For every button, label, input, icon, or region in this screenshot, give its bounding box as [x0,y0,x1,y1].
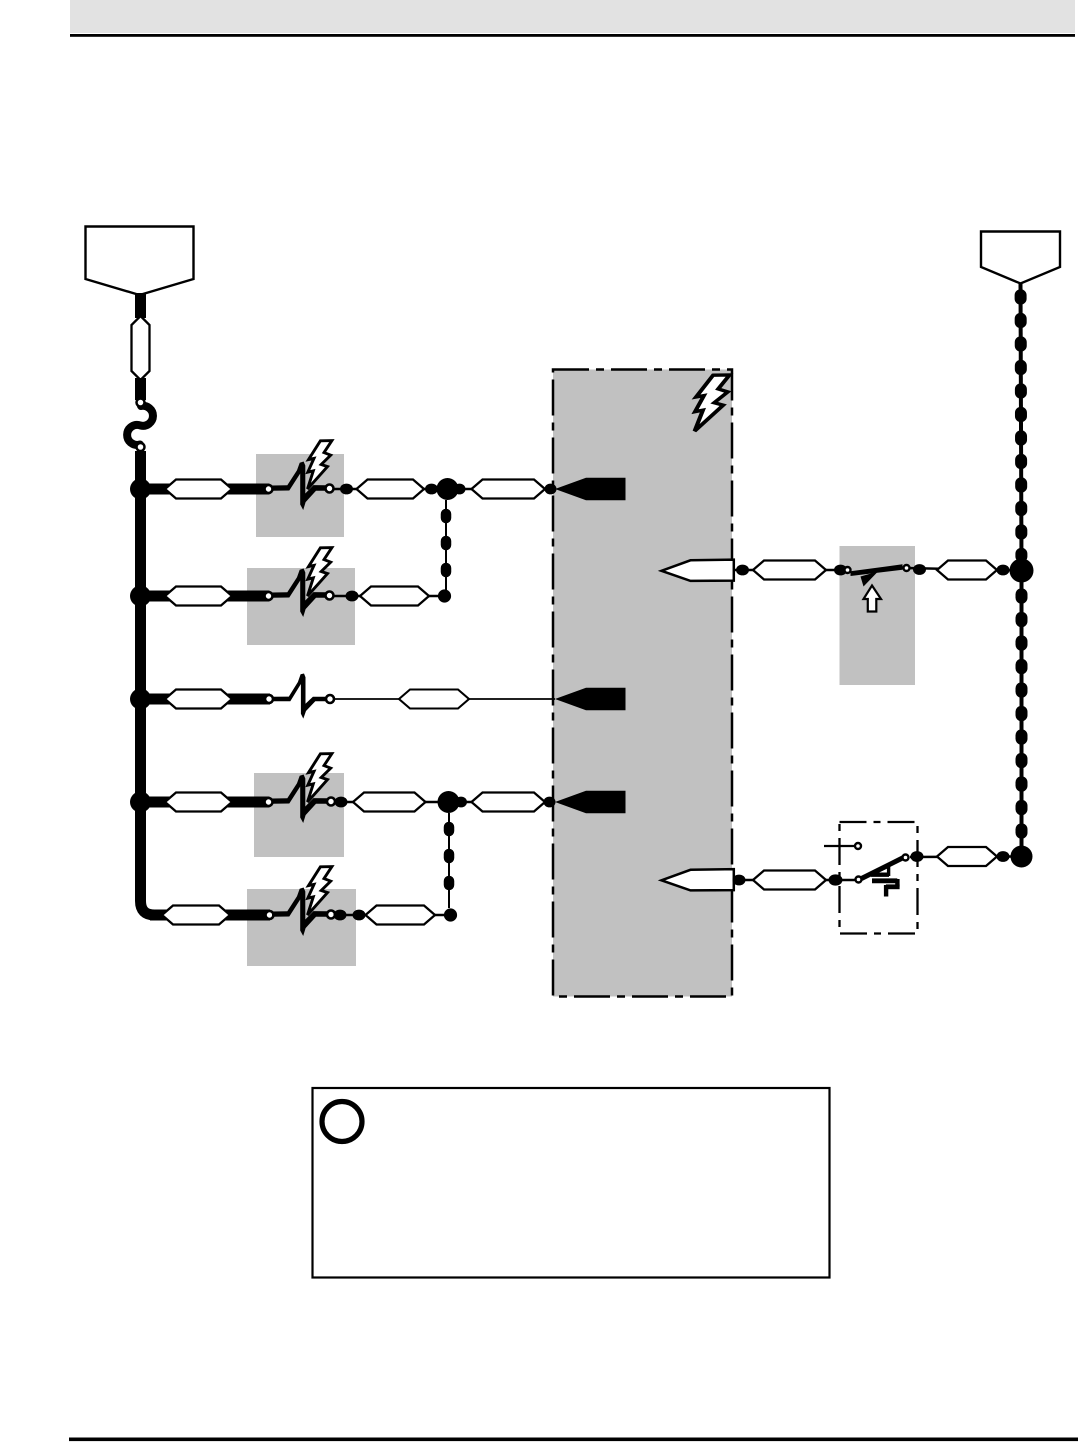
beaded link row1-row2 [445,500,447,590]
row 3 terminal circle B [326,695,334,703]
row 5 bullet a [334,910,347,921]
row 3 connector hexagon [399,690,469,709]
row 1 bus junction [130,479,151,500]
row 5 connector hexagon B [366,906,436,925]
row 2 terminal circle B [326,592,334,600]
wire pentagon to fuse [135,293,146,318]
wire coil (S-curve) [127,406,153,445]
right beaded bus upper [1021,283,1022,570]
switch row wire left [734,569,848,571]
wire fuse to coil [135,378,146,400]
row 1 connector hexagon C [472,480,546,499]
switch actuation arrow [864,586,882,612]
relay row bullet c [911,851,924,862]
row 4 bullet a [335,797,348,808]
right beaded bus lower [1020,570,1024,856]
row 1 bullet d [545,484,557,495]
row 4 terminal circle A [265,798,273,806]
footer rule [69,1438,1078,1442]
row 5 short bolt [308,867,332,915]
header bar [70,0,1075,33]
relay blade [862,858,904,879]
row 5 terminal circle A [266,911,274,919]
row 4 bullet c [455,797,467,808]
row 4 short bolt [308,754,332,802]
row 4 connector hexagon C [472,793,546,812]
grey highlight box switch [840,546,916,685]
relay coil stub circle [855,843,861,849]
grey highlight box row2 [247,568,355,645]
beaded link row4-row5 [448,813,450,908]
row 3 bus junction [130,689,151,710]
row 1 terminal circle A [265,485,273,493]
short-circuit bolt inside ECU block [695,375,730,431]
grey highlight box row4 [254,773,344,857]
relay row wire left [734,879,858,881]
row 1 break zigzag [272,462,327,511]
row 2 short bolt [308,548,332,596]
switch blade [851,564,903,576]
row 5 terminal circle B [327,911,335,919]
row 5 wire [150,910,270,921]
switch blade hook [861,572,879,587]
relay row bullet d [997,851,1010,862]
main fuse (vertical hexagon) [132,316,150,380]
grey highlight box row5 [247,889,356,966]
row 1 wire to ECU [447,488,555,490]
row 1 short bolt [308,441,332,489]
row 4 bus junction [130,792,151,813]
row 4 bullet d [544,797,556,808]
row 4 wire [146,797,270,808]
row 2 terminal circle A [265,592,273,600]
switch row wire right [906,568,1021,571]
row 5 break zigzag [272,888,327,937]
row 4 break zigzag [272,775,327,824]
note number circle [322,1102,362,1142]
relay latch squiggle [863,866,900,897]
row 2 connector hexagon B [360,587,429,606]
relay coil stub [824,845,854,847]
terminal circle top [137,399,145,407]
relay contact right circle [903,855,909,861]
row 3 wire thin [334,698,555,700]
row 3 ECU pin wedge [555,688,626,710]
row 1 bullet c [454,484,466,495]
row 3 terminal circle A [265,695,273,703]
row 1 wire thin [333,488,444,490]
right bus junction [1010,559,1034,583]
row 1 bullet b [425,484,438,495]
header rule [70,34,1075,37]
row 1 connector hexagon A [165,480,232,499]
row 4 ECU pin wedge [555,791,626,813]
note box [313,1088,830,1278]
switch row hexagon right [937,561,997,580]
relay row wire right [910,855,1016,858]
row 1 bullet a [340,484,353,495]
row 4 connector hexagon A [165,793,232,812]
switch row bullet d [997,565,1010,576]
load connector (right pentagon) [981,232,1060,284]
row 1 splice junction [437,478,459,500]
row 1 terminal circle B [326,485,334,493]
ECU output arrow (switch row) [662,560,734,581]
row 2 bullet a [346,591,359,602]
row 5 bullet b [353,910,366,921]
switch contact right circle [904,565,910,571]
ECU output arrow (relay row) [662,869,734,890]
relay row hexagon left [753,871,826,890]
row 2 wire thin [333,595,444,597]
row 5 connector hexagon A [162,906,230,925]
switch row bullet c [913,564,926,575]
switch contact left circle [845,567,851,573]
row 2 connector hexagon A [165,587,232,606]
ECU block (grey dash-dot box) [553,370,732,997]
grey highlight box row1 [256,454,344,537]
switch row hexagon left [753,561,826,580]
row 2 break zigzag [272,569,327,618]
row 5 end splice [444,908,457,921]
main bus (thick left vertical wire) [141,451,171,915]
switch row bullet b [834,565,847,576]
row 3 connector hexagon A [165,690,232,709]
relay row bullet b [829,874,843,885]
row 1 ECU pin wedge [555,478,626,500]
relay box (dash-dot) [840,822,918,934]
row 2 bus junction [130,586,151,607]
row 4 connector hexagon B [353,793,426,812]
relay row bullet a [733,875,746,886]
row 3 break zigzag [272,674,327,719]
row 4 terminal circle B [327,798,335,806]
row 4 wire thin [334,801,555,803]
switch row bullet a [736,565,749,576]
row 1 connector hexagon B [357,480,425,499]
battery connector (left pentagon) [86,227,194,296]
row 2 wire [146,591,270,602]
row 2 end splice [438,589,451,602]
relay contact left circle [856,877,862,883]
relay row hexagon right [937,847,997,866]
row 1 wire [146,484,270,495]
row 4 splice junction [438,791,460,813]
row 5 wire thin [334,914,447,916]
terminal circle bottom [137,443,145,451]
right bus corner splice [1011,846,1033,868]
row 3 wire [146,694,270,705]
